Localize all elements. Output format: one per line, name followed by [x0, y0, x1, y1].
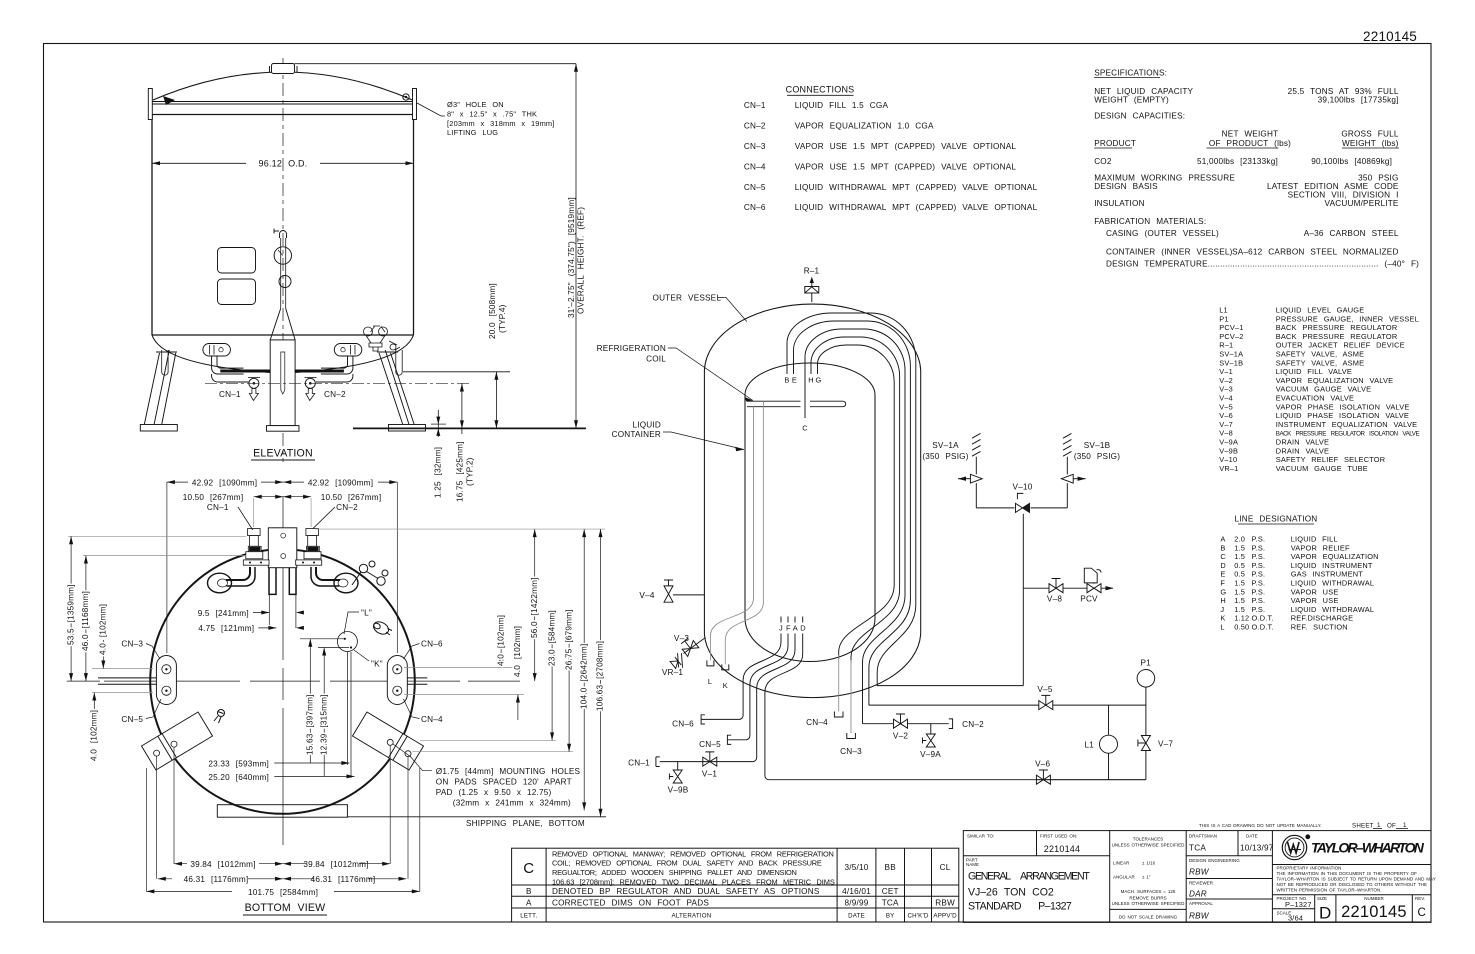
svg-text:V–6: V–6	[1035, 760, 1050, 769]
svg-text:DRAFTSMAN: DRAFTSMAN	[1189, 834, 1217, 839]
valve V-7	[1138, 736, 1151, 751]
svg-text:23.0 [584mm]: 23.0 [584mm]	[547, 610, 556, 666]
svg-text:UNLESS OTHERWISE SPECIFIED: UNLESS OTHERWISE SPECIFIED	[1112, 843, 1186, 848]
svg-text:RBW: RBW	[1189, 912, 1210, 921]
svg-text:VACUUM GAUGE TUBE: VACUUM GAUGE TUBE	[1276, 464, 1368, 473]
svg-text:J: J	[779, 624, 783, 633]
svg-text:V–1: V–1	[702, 770, 717, 779]
O.D. dimension	[152, 162, 246, 164]
svg-text:VAPOR PHASE ISOLATION VALVE: VAPOR PHASE ISOLATION VALVE	[1276, 402, 1410, 411]
svg-text:2.0: 2.0	[1234, 535, 1245, 544]
svg-text:SIZE: SIZE	[1317, 896, 1327, 901]
pipe G over top to CN-4	[818, 345, 895, 659]
svg-text:VJ–26 TON CO2: VJ–26 TON CO2	[968, 887, 1054, 899]
CN-6 connection	[701, 715, 705, 724]
svg-text:P.S.: P.S.	[1252, 535, 1266, 544]
right dim 23.0	[551, 640, 553, 740]
pad leader verticals to bottom dims	[146, 745, 419, 891]
svg-text:P.S.: P.S.	[1252, 605, 1266, 614]
svg-text:PROPRIETARY INFORMATION: PROPRIETARY INFORMATION	[1277, 866, 1342, 871]
safety valve SV-1B	[1061, 433, 1085, 507]
svg-text:P.S.: P.S.	[1252, 596, 1266, 605]
CN-2 elbow pipe	[321, 356, 353, 374]
svg-text:VACUUM/PERLITE: VACUUM/PERLITE	[1325, 199, 1399, 208]
svg-text:TAYLOR–WHARTON: TAYLOR–WHARTON	[1311, 840, 1425, 856]
svg-text:ANGULAR: ANGULAR	[1113, 875, 1136, 880]
svg-text:LINEAR: LINEAR	[1113, 861, 1130, 866]
svg-text:VAPOR EQUALIZATION: VAPOR EQUALIZATION	[1291, 552, 1379, 561]
svg-text:1.5: 1.5	[1234, 587, 1245, 596]
bottom head weld	[152, 334, 414, 336]
svg-text:(TYP.4): (TYP.4)	[498, 304, 507, 333]
svg-text:OF: OF	[1387, 823, 1396, 830]
horizontal centerline	[67, 680, 520, 682]
pipe B over top to V-10 riser	[787, 313, 1023, 686]
svg-text:WEIGHT (lbs): WEIGHT (lbs)	[1342, 139, 1399, 148]
left legs	[144, 350, 176, 425]
svg-text:CN–6: CN–6	[421, 639, 443, 648]
svg-text:LIQUID WITHDRAWAL: LIQUID WITHDRAWAL	[1291, 579, 1374, 588]
pipe H over top to CN-3	[811, 337, 900, 663]
svg-text:LIQUID FILL 1.5 CGA: LIQUID FILL 1.5 CGA	[795, 101, 889, 110]
coil pipe K	[725, 401, 763, 664]
svg-text:E: E	[792, 376, 797, 385]
svg-text:REFRIGERATION: REFRIGERATION	[597, 344, 666, 353]
svg-text:C: C	[1417, 907, 1426, 919]
svg-text:1.5: 1.5	[1234, 579, 1245, 588]
svg-text:46.31 [1176mm]: 46.31 [1176mm]	[184, 875, 249, 884]
overall height dim line	[575, 64, 577, 429]
svg-text:56.0 [1422mm]: 56.0 [1422mm]	[530, 577, 539, 638]
svg-text:NOT BE REPRODUCED OR DISCL: NOT BE REPRODUCED OR DISCLOSED TO OTHERS…	[1277, 882, 1427, 887]
svg-text:DENOTED BP REGULATOR AND D: DENOTED BP REGULATOR AND DUAL SAFETY AS …	[552, 887, 820, 896]
svg-text:VAPOR USE: VAPOR USE	[1291, 587, 1339, 596]
right dim 26.75	[568, 640, 570, 752]
svg-text:NAME: NAME	[966, 862, 979, 867]
svg-text:A: A	[1220, 535, 1225, 544]
pipe D to bottom header	[765, 634, 1146, 780]
right legs	[379, 350, 414, 425]
svg-text:4.0 [102mm]: 4.0 [102mm]	[90, 710, 99, 761]
svg-text:1.5: 1.5	[1234, 543, 1245, 552]
svg-text:42.92 [1090mm]: 42.92 [1090mm]	[308, 479, 373, 488]
CN-2 nozzle pad	[334, 344, 362, 357]
svg-text:FIRST USED ON:: FIRST USED ON:	[1040, 834, 1077, 839]
svg-text:ON PADS SPACED 120' APART: ON PADS SPACED 120' APART	[436, 778, 572, 787]
svg-text:OUTER JACKET RELIEF DEVICE: OUTER JACKET RELIEF DEVICE	[1276, 341, 1405, 350]
CN-2 drain	[306, 389, 315, 401]
svg-text:G: G	[1220, 587, 1226, 596]
shell circle	[150, 549, 415, 814]
valve V-5	[1039, 695, 1053, 709]
svg-text:± 1/16: ± 1/16	[1142, 861, 1156, 866]
pressure gauge big	[274, 247, 291, 264]
tank shell	[151, 115, 153, 336]
center manhole column	[268, 528, 297, 568]
bottom line (D) with V-6	[1036, 779, 1146, 781]
svg-text:C: C	[523, 860, 534, 877]
svg-text:2210145: 2210145	[1341, 903, 1407, 921]
central column	[270, 340, 295, 426]
svg-text:51,000lbs [23133kg]: 51,000lbs [23133kg]	[1197, 157, 1278, 166]
svg-text:46.0 [1168mm]: 46.0 [1168mm]	[81, 591, 90, 651]
svg-text:Ø3" HOLE ON: Ø3" HOLE ON	[447, 100, 504, 109]
svg-text:DESIGN CAPACITIES:: DESIGN CAPACITIES:	[1094, 112, 1185, 121]
svg-text:REMOVE BURRS: REMOVE BURRS	[1129, 896, 1166, 901]
svg-text:1.25 [32mm]: 1.25 [32mm]	[434, 447, 443, 498]
svg-text:V–3: V–3	[674, 634, 689, 643]
svg-text:2210144: 2210144	[1044, 844, 1080, 854]
svg-text:DESIGN BASIS: DESIGN BASIS	[1094, 182, 1158, 191]
svg-text:SHEET: SHEET	[1352, 823, 1374, 830]
svg-text:SAFETY VALVE, ASME: SAFETY VALVE, ASME	[1276, 358, 1364, 367]
svg-text:L: L	[1220, 623, 1224, 632]
svg-text:A–36 CARBON STEEL: A–36 CARBON STEEL	[1304, 229, 1399, 238]
coil pipe L	[710, 407, 753, 661]
svg-text:LIQUID INSTRUMENT: LIQUID INSTRUMENT	[1291, 561, 1373, 570]
right foot	[389, 425, 426, 432]
R-1 relief device	[805, 277, 819, 302]
CN-1 elbow pipe	[212, 356, 244, 374]
svg-text:25.20 [640mm]: 25.20 [640mm]	[208, 773, 269, 782]
svg-text:P.S.: P.S.	[1252, 552, 1266, 561]
svg-text:WEIGHT (EMPTY): WEIGHT (EMPTY)	[1094, 95, 1169, 104]
svg-text:COIL; REMOVED OPTIONAL FROM: COIL; REMOVED OPTIONAL FROM DUAL SAFETY …	[552, 859, 822, 868]
svg-text:ALTERATION: ALTERATION	[672, 913, 712, 920]
svg-text:B: B	[526, 887, 532, 896]
svg-text:LETT.: LETT.	[520, 913, 537, 920]
svg-text:APPROVAL: APPROVAL	[1189, 901, 1213, 906]
svg-text:LIQUID WITHDRAWAL MPT (CAPP: LIQUID WITHDRAWAL MPT (CAPPED) VALVE OPT…	[795, 183, 1038, 192]
svg-text:PAD (1.25 x 9.50 x 12.75): PAD (1.25 x 9.50 x 12.75)	[436, 788, 552, 797]
dished head	[153, 72, 413, 100]
svg-text:106.63 [2708mm]; REMOVED TW: 106.63 [2708mm]; REMOVED TWO DECIMAL PLA…	[552, 877, 835, 886]
svg-text:VAPOR USE 1.5 MPT (CAPPED): VAPOR USE 1.5 MPT (CAPPED) VALVE OPTIONA…	[795, 142, 1017, 151]
svg-text:COIL: COIL	[646, 354, 666, 363]
svg-text:V–5: V–5	[1219, 402, 1233, 411]
svg-text:DESIGN TEMPERATURE...........: DESIGN TEMPERATURE......................…	[1106, 259, 1419, 268]
pressure gauge small	[279, 276, 291, 288]
svg-text:DRAIN VALVE: DRAIN VALVE	[1276, 446, 1329, 455]
dip tube stubs J F A D	[781, 617, 803, 623]
svg-text:DATE: DATE	[848, 913, 865, 920]
svg-text:REMOVED OPTIONAL MANWAY; RE: REMOVED OPTIONAL MANWAY; REMOVED OPTIONA…	[552, 849, 834, 858]
svg-text:TOLERANCES: TOLERANCES	[1133, 837, 1163, 842]
left foot	[140, 425, 177, 432]
svg-text:(350 PSIG): (350 PSIG)	[922, 452, 968, 461]
svg-text:31'–2.75" (374.75") [9519mm]: 31'–2.75" (374.75") [9519mm]	[567, 197, 576, 318]
svg-text:10.50 [267mm]: 10.50 [267mm]	[183, 493, 244, 502]
svg-text:39,100lbs [17735kg]: 39,100lbs [17735kg]	[1318, 95, 1399, 104]
outer vessel	[704, 304, 920, 698]
CN-4 stub	[838, 655, 840, 712]
dim 15.63 vertical	[300, 639, 344, 763]
CN-1 connection	[656, 757, 660, 767]
manhole flange bars	[243, 560, 269, 565]
svg-text:INSULATION: INSULATION	[1094, 199, 1145, 208]
svg-text:96.12 O.D.: 96.12 O.D.	[259, 159, 308, 169]
svg-text:V–10: V–10	[1219, 455, 1237, 464]
svg-text:DATE: DATE	[1246, 834, 1258, 839]
svg-text:SPECIFICATIONS:: SPECIFICATIONS:	[1094, 68, 1167, 77]
svg-text:4.75 [121mm]: 4.75 [121mm]	[198, 624, 254, 633]
svg-text:53.5 [1359mm]: 53.5 [1359mm]	[66, 584, 75, 645]
svg-text:46.31 [1176mm]: 46.31 [1176mm]	[311, 875, 376, 884]
svg-text:CN–6: CN–6	[744, 203, 766, 212]
svg-text:LIQUID FILL: LIQUID FILL	[1291, 535, 1338, 544]
svg-text:STANDARD P–1327: STANDARD P–1327	[968, 901, 1072, 913]
svg-text:39.84 [1012mm]: 39.84 [1012mm]	[303, 860, 368, 869]
svg-text:15.63 [397mm]: 15.63 [397mm]	[306, 694, 315, 755]
valve V-8	[1049, 579, 1063, 593]
svg-text:SIMILAR TO:: SIMILAR TO:	[967, 834, 994, 839]
svg-text:VAPOR USE: VAPOR USE	[1291, 596, 1339, 605]
svg-text:K: K	[1220, 614, 1225, 623]
valve V-2	[894, 714, 908, 728]
svg-text:C: C	[802, 424, 808, 433]
svg-text:106.63 [2708mm]: 106.63 [2708mm]	[596, 641, 605, 711]
dim 42.92 pair	[167, 481, 397, 483]
pallet / shipping plane	[217, 805, 347, 818]
svg-text:42.92 [1090mm]: 42.92 [1090mm]	[192, 479, 257, 488]
svg-text:CN–2: CN–2	[744, 122, 766, 131]
svg-text:V–10: V–10	[1013, 483, 1033, 492]
svg-text:LIQUID: LIQUID	[633, 420, 662, 429]
svg-text:1: 1	[1403, 822, 1407, 829]
dim 10.50 pair	[254, 496, 311, 498]
svg-text:LIQUID WITHDRAWAL: LIQUID WITHDRAWAL	[1291, 605, 1374, 614]
svg-text:CN–3: CN–3	[121, 639, 143, 648]
svg-text:D: D	[1220, 561, 1226, 570]
data plates	[218, 248, 256, 274]
svg-text:"K": "K"	[371, 660, 383, 669]
svg-text:P.S.: P.S.	[1252, 543, 1266, 552]
svg-text:C: C	[1220, 552, 1226, 561]
svg-text:L1: L1	[1219, 306, 1228, 315]
svg-text:V–9B: V–9B	[1219, 446, 1238, 455]
pipe E over top to V-5	[794, 321, 911, 705]
svg-text:1.5: 1.5	[1234, 552, 1245, 561]
dim 101.75	[146, 890, 419, 892]
CN-3/5 pipes left	[98, 678, 156, 684]
svg-text:1.5: 1.5	[1234, 605, 1245, 614]
svg-text:H: H	[808, 376, 814, 385]
svg-text:CN–5: CN–5	[121, 715, 143, 724]
right lifting lug	[413, 89, 417, 120]
svg-text:90,100lbs [40869kg]: 90,100lbs [40869kg]	[1311, 157, 1392, 166]
tank centerline	[282, 58, 284, 462]
svg-text:4.0 [102mm]: 4.0 [102mm]	[99, 604, 108, 655]
svg-text:CN–4: CN–4	[806, 718, 828, 727]
svg-text:OF PRODUCT (lbs): OF PRODUCT (lbs)	[1209, 139, 1291, 148]
V-3 / VR-1 branch line	[684, 638, 706, 654]
svg-text:LINE DESIGNATION: LINE DESIGNATION	[1235, 515, 1318, 524]
CN-3 pad	[156, 656, 176, 705]
svg-text:REVIEWER: REVIEWER	[1189, 881, 1214, 886]
svg-text:V–9A: V–9A	[1219, 438, 1238, 447]
svg-text:CN–4: CN–4	[744, 162, 766, 171]
svg-text:DRAIN VALVE: DRAIN VALVE	[1276, 438, 1329, 447]
svg-text:THIS IS A CAD DRAWING DO: THIS IS A CAD DRAWING DO NOT UPDATE MANU…	[1199, 823, 1321, 828]
dim 12.39 vertical	[318, 648, 349, 777]
svg-text:B: B	[1220, 543, 1225, 552]
svg-text:GENERAL ARRANGEMENT: GENERAL ARRANGEMENT	[968, 871, 1090, 883]
svg-text:0.50: 0.50	[1234, 623, 1249, 632]
V-10 selector valve	[1016, 493, 1030, 512]
svg-text:± 1°: ± 1°	[1142, 875, 1151, 880]
lug callout leader	[417, 103, 445, 116]
level gauge tube	[281, 352, 285, 394]
svg-text:V–9A: V–9A	[920, 750, 941, 759]
valve V-1	[703, 752, 717, 766]
svg-text:E: E	[1220, 570, 1225, 579]
svg-text:4.0 [102mm]: 4.0 [102mm]	[513, 626, 522, 677]
svg-text:"L": "L"	[361, 609, 372, 618]
svg-text:TAYLOR–WHARTON IS SUBJECT T: TAYLOR–WHARTON IS SUBJECT TO RETURN UPON…	[1277, 877, 1436, 882]
svg-text:1.12: 1.12	[1234, 614, 1249, 623]
CN-1 nozzle stack	[246, 529, 263, 559]
svg-text:INSTRUMENT EQUALIZATION VALV: INSTRUMENT EQUALIZATION VALVE	[1276, 420, 1417, 429]
svg-text:V–8: V–8	[1047, 595, 1062, 604]
svg-text:F: F	[786, 624, 791, 633]
svg-text:RBW: RBW	[935, 899, 955, 908]
svg-text:PRESSURE GAUGE, INNER VESSE: PRESSURE GAUGE, INNER VESSEL	[1276, 314, 1419, 323]
manway on head	[272, 64, 295, 74]
valve V-4	[664, 580, 704, 602]
svg-text:101.75 [2584mm]: 101.75 [2584mm]	[248, 888, 318, 897]
svg-text:Ø1.75 [44mm] MOUNTING HOLES: Ø1.75 [44mm] MOUNTING HOLES	[436, 767, 581, 776]
svg-text:CN–1: CN–1	[744, 101, 766, 110]
svg-text:REF.DISCHARGE: REF.DISCHARGE	[1291, 614, 1354, 623]
svg-text:G: G	[816, 376, 822, 385]
svg-text:0.5: 0.5	[1234, 561, 1245, 570]
svg-text:MACH. SURFACES = 125: MACH. SURFACES = 125	[1121, 889, 1176, 894]
svg-text:P.S.: P.S.	[1252, 579, 1266, 588]
svg-text:CONTAINER (INNER VESSEL): CONTAINER (INNER VESSEL)	[1106, 248, 1233, 257]
svg-text:CN–4: CN–4	[421, 715, 443, 724]
svg-text:H: H	[1220, 596, 1226, 605]
svg-text:CN–1: CN–1	[207, 503, 229, 512]
svg-text:F: F	[1220, 579, 1225, 588]
svg-text:VAPOR USE 1.5 MPT (CAPPED): VAPOR USE 1.5 MPT (CAPPED) VALVE OPTIONA…	[795, 162, 1017, 171]
K end bracket	[722, 664, 729, 670]
Taylor-Wharton logo	[1282, 834, 1310, 859]
pad thickness dim 1.25	[437, 410, 439, 437]
svg-text:CONNECTIONS: CONNECTIONS	[786, 85, 855, 95]
svg-text:V–7: V–7	[1219, 420, 1233, 429]
svg-text:ELEVATION: ELEVATION	[253, 448, 313, 460]
funnel neck	[270, 308, 295, 340]
right dim 4.0 lower	[517, 695, 519, 721]
CN-1 drain	[249, 389, 258, 401]
svg-text:GROSS FULL: GROSS FULL	[1341, 130, 1399, 139]
svg-text:TCA: TCA	[1189, 844, 1206, 853]
svg-text:VR–1: VR–1	[1219, 464, 1238, 473]
svg-text:PCV–2: PCV–2	[1219, 332, 1243, 341]
refrigeration coil	[747, 401, 846, 407]
valve height dim 16.75	[461, 384, 463, 435]
svg-text:LIQUID WITHDRAWAL MPT (CAPP: LIQUID WITHDRAWAL MPT (CAPPED) VALVE OPT…	[795, 203, 1038, 212]
svg-text:3/5/10: 3/5/10	[845, 863, 869, 872]
valve V-3	[679, 637, 699, 657]
svg-text:VAPOR EQUALIZATION VALVE: VAPOR EQUALIZATION VALVE	[1276, 376, 1393, 385]
svg-text:SAFETY VALVE, ASME: SAFETY VALVE, ASME	[1276, 350, 1364, 359]
svg-text:V–2: V–2	[1219, 376, 1233, 385]
svg-text:P–1327: P–1327	[1285, 900, 1312, 909]
bottom head curve	[152, 335, 414, 373]
svg-text:CN–3: CN–3	[840, 747, 862, 756]
svg-text:CN–6: CN–6	[672, 719, 694, 728]
lower-right foot pad	[353, 712, 424, 770]
ground line	[353, 427, 586, 429]
svg-text:PCV: PCV	[1080, 595, 1098, 604]
svg-text:THE INFORMATION IN THIS DO: THE INFORMATION IN THIS DOCUMENT IS THE …	[1277, 871, 1418, 876]
svg-text:16.75 [425mm]: 16.75 [425mm]	[456, 441, 465, 502]
svg-text:SV–1A: SV–1A	[932, 441, 959, 450]
left dim 4.0 upper	[92, 668, 153, 670]
pipe F to CN-5	[727, 634, 788, 740]
pipe A to CN-1 line	[660, 634, 795, 762]
svg-text:V–4: V–4	[639, 591, 654, 600]
right dim 106.63	[600, 529, 602, 817]
CN-6 pad	[387, 656, 407, 705]
svg-text:V–1: V–1	[1219, 367, 1233, 376]
svg-text:CL: CL	[940, 863, 951, 872]
valve V-9A drain	[923, 724, 936, 747]
svg-text:P.S.: P.S.	[1252, 570, 1266, 579]
svg-text:BB: BB	[885, 863, 897, 872]
svg-text:P1: P1	[1219, 314, 1228, 323]
left drop tube	[162, 350, 168, 375]
svg-text:CN–1: CN–1	[628, 758, 650, 767]
svg-text:DAR: DAR	[1189, 890, 1207, 899]
svg-text:REGUALTOR; ADDED WOODEN SHI: REGUALTOR; ADDED WOODEN SHIPPING PALLET …	[552, 868, 797, 877]
svg-text:CH'K'D: CH'K'D	[907, 913, 928, 920]
CN-3 stub	[850, 660, 852, 733]
svg-text:LIQUID PHASE ISOLATION VALV: LIQUID PHASE ISOLATION VALVE	[1276, 411, 1409, 420]
svg-text:[203mm x 318mm x 19mm]: [203mm x 318mm x 19mm]	[447, 119, 555, 128]
svg-text:OVERALL HEIGHT. (REF): OVERALL HEIGHT. (REF)	[577, 207, 586, 314]
svg-text:SAFETY RELIEF SELECTOR: SAFETY RELIEF SELECTOR	[1276, 455, 1386, 464]
svg-text:LIFTING LUG: LIFTING LUG	[447, 128, 498, 137]
L end bracket	[707, 660, 714, 666]
svg-text:V–8: V–8	[1219, 429, 1233, 438]
screw icon right (K dowel)	[371, 619, 392, 636]
P1 gauge	[1137, 670, 1155, 688]
svg-text:RBW: RBW	[1189, 868, 1210, 877]
svg-text:R–1: R–1	[804, 267, 820, 276]
svg-text:LIQUID FILL VALVE: LIQUID FILL VALVE	[1276, 367, 1352, 376]
svg-text:REF. SUCTION: REF. SUCTION	[1291, 623, 1348, 632]
left lifting lug	[148, 89, 152, 120]
svg-text:104.0 [2642mm]: 104.0 [2642mm]	[579, 644, 588, 709]
right internal pipe loop	[316, 567, 340, 580]
svg-text:(350 PSIG): (350 PSIG)	[1074, 452, 1120, 461]
revision table frame	[512, 848, 959, 922]
leg height dim 20.0	[403, 371, 510, 373]
svg-text:CORRECTED DIMS ON FOOT PAD: CORRECTED DIMS ON FOOT PADS	[552, 899, 709, 908]
svg-text:APPV'D: APPV'D	[933, 913, 957, 920]
manhole yoke	[269, 568, 296, 595]
CN-2 equalization valve	[305, 378, 315, 388]
overall height leader from manway	[295, 63, 577, 65]
valve V-6	[1036, 770, 1050, 784]
svg-text:SA–612 CARBON STEEL NORMALI: SA–612 CARBON STEEL NORMALIZED	[1232, 248, 1399, 257]
svg-text:0.5: 0.5	[1234, 570, 1245, 579]
svg-text:BY: BY	[886, 913, 895, 920]
right dim 56.0	[534, 529, 536, 681]
svg-text:DESIGN ENGINEERING: DESIGN ENGINEERING	[1189, 858, 1240, 863]
